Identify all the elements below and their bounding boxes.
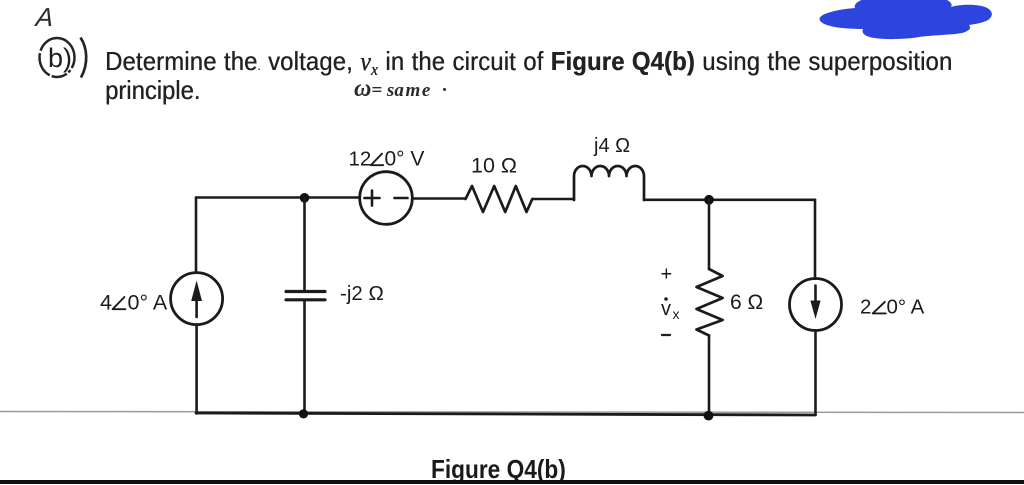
node B junction dot <box>704 195 714 205</box>
svg-text:6 Ω: 6 Ω <box>730 291 763 314</box>
svg-text:12: 12 <box>349 147 372 170</box>
wire: 6 ohm branch lower <box>708 336 711 415</box>
wire: 6 ohm branch upper <box>708 200 711 269</box>
svg-text:-j2 Ω: -j2 Ω <box>340 282 384 305</box>
node A top junction dot <box>300 193 310 203</box>
label 12&ang;0&deg; V <box>349 147 425 170</box>
current source I1 4&ang;0&deg; A <box>171 273 223 325</box>
figure caption <box>431 454 566 485</box>
svg-text:x: x <box>673 306 680 322</box>
svg-text:j4 Ω: j4 Ω <box>593 135 630 157</box>
svg-text:2: 2 <box>860 295 871 318</box>
handwritten annotation: omega = same <box>354 76 448 103</box>
current source I2 2&ang;0&deg; A <box>790 279 842 331</box>
svg-text:+: + <box>661 264 673 286</box>
resistor R1 10 ohm <box>466 186 533 212</box>
capacitor C1 -j2 <box>286 290 325 293</box>
wire: bottom rail <box>196 413 816 415</box>
wire: between resistor and inductor <box>532 198 574 201</box>
wire: left rail upper <box>195 198 198 273</box>
node D bottom-right junction dot <box>704 411 714 421</box>
svg-text:0° A: 0° A <box>128 290 168 314</box>
wire: top rail right segment <box>644 199 815 202</box>
svg-text:4: 4 <box>100 290 112 314</box>
wire: right rail lower <box>814 330 817 414</box>
voltage source V1 12&ang;0&deg; V <box>360 172 413 225</box>
svg-text:v: v <box>661 298 671 320</box>
handwritten letter A top-left <box>34 2 54 33</box>
wire: capacitor branch lower <box>303 300 306 414</box>
blue marker scribble top-right <box>815 0 1000 44</box>
circled (b) question label <box>30 32 100 84</box>
resistor R2 6 ohm <box>697 269 723 336</box>
wire: between source and resistor <box>412 197 465 200</box>
svg-text:0° V: 0° V <box>385 147 425 170</box>
label vx minus <box>662 334 670 336</box>
label 2&ang;0&deg; A <box>860 295 925 318</box>
wire: right rail upper <box>814 200 817 279</box>
wire: capacitor branch upper <box>303 198 306 292</box>
wire: top rail left segment <box>196 196 360 199</box>
problem statement line 2 <box>105 75 200 106</box>
wire: left rail lower <box>195 324 198 413</box>
inductor L1 j4 <box>574 166 644 200</box>
label 4&ang;0&deg; A <box>100 290 168 314</box>
problem statement line 1 (justified) <box>105 48 952 80</box>
light gray page rule line behind circuit <box>0 412 1024 413</box>
node C bottom-left junction dot <box>299 409 308 418</box>
bottom rule <box>0 480 1024 484</box>
svg-text:0° A: 0° A <box>887 295 925 318</box>
svg-text:10 Ω: 10 Ω <box>471 153 517 177</box>
label vx <box>661 297 680 322</box>
